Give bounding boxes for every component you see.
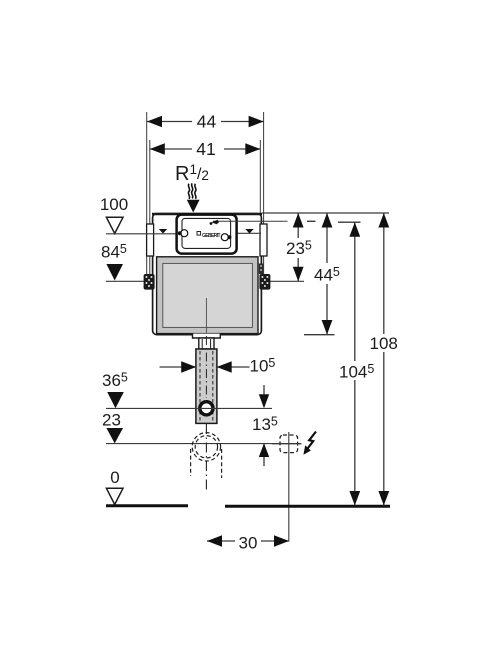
level 63.5 tick line [304,334,335,336]
right bracket upper strip [259,264,264,275]
dimension 108 arrowheads [378,213,389,228]
svg-text:GEBERIT: GEBERIT [202,233,221,239]
leader line dash after arrow [307,220,316,222]
leader arrowhead [212,220,218,225]
electrical cross horizontal [272,443,302,445]
dimension 13.5 down arrow [263,385,265,396]
extension line left inner (41) [149,140,151,276]
outlet connector neck [199,338,214,349]
dimension 41 arrowheads [150,143,165,155]
level 104.5 tick line [338,221,361,223]
outlet connector flange [193,334,221,338]
level 84.5 line left [106,280,144,282]
cistern top edge thick [152,213,262,216]
geberit logo square [197,232,201,236]
access panel inner frame [182,218,231,248]
drain dashed circle inner [195,436,217,458]
svg-text:100: 100 [100,195,128,214]
dimension 23.5 arrowheads [293,213,304,228]
access panel outer frame [177,215,237,254]
panel button dots [210,222,213,225]
tank inner panel [163,263,253,327]
svg-text:44: 44 [197,111,217,131]
level 0 open triangle [106,488,123,504]
drain dashed circle outer [192,433,220,461]
dimension 44 line [147,121,264,123]
neck thread lines [201,339,203,349]
level 84.5 line right [268,280,304,282]
left mounting bracket [144,274,155,290]
water level tick left [159,229,167,234]
svg-text:41: 41 [196,139,215,159]
pipe outlet circle [200,402,213,415]
tank center line [205,298,207,334]
dimension 104.5 vertical line [354,222,356,361]
drain dashed side right [221,449,223,478]
dimension 23.5 vertical line [297,213,299,238]
svg-text:108: 108 [370,334,398,353]
dimension 13.5 up arrow [263,444,265,466]
extension line right inner (41) [259,140,261,214]
dimension 10.5 left arrow [160,366,197,368]
button leader line [213,220,288,222]
extension line left outer (44) [146,112,148,276]
dimension 44.5 arrowheads [322,213,333,228]
svg-text:23: 23 [102,411,121,430]
keyhole right [221,234,228,241]
dimension 10.5 right arrow [217,366,250,368]
keyhole left [181,230,188,237]
level 23 filled triangle [106,428,123,443]
drain dashed side left [190,449,192,476]
cistern outer box [153,214,262,335]
lightning bolt [307,432,316,450]
floor line right [225,505,390,508]
pipe center line [205,336,207,398]
level 100 open triangle [106,217,123,233]
left side tab [147,224,154,256]
svg-text:30: 30 [239,534,258,553]
level 23 line [106,443,301,445]
extension line right outer (44) [263,112,265,275]
level 36.5 line [106,407,272,409]
dimension 44.5 vertical line [326,213,328,263]
svg-text:0: 0 [110,468,119,487]
electrical dashed square [280,435,298,453]
dimension 30 line [207,540,235,542]
flush pipe inner dashed lines [199,351,201,421]
dimension 41 line [150,148,260,150]
water inlet squiggle [188,183,196,198]
dimension 104.5 arrowheads [349,222,360,237]
dimension 44 arrowheads [147,116,162,128]
right side tab [260,224,267,256]
top reference line (level 108) [262,212,389,214]
tank frame [157,257,258,334]
right mounting bracket [259,274,270,290]
level 100 line [106,233,177,235]
level 100 line right segment [237,232,262,234]
flush pipe [196,349,217,423]
water level tick right [245,229,253,234]
drain center line [205,424,207,493]
water inlet arrow [187,200,200,213]
level 36.5 filled triangle [107,392,124,408]
floor line left [106,504,188,507]
electrical vertical line [288,432,290,542]
level 84.5 filled triangle [106,264,123,281]
dimension 30 arrowheads [207,535,222,547]
dimension 108 vertical line [383,213,385,334]
